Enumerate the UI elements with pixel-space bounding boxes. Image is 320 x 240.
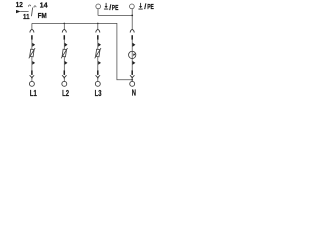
plug blade bbox=[64, 35, 66, 40]
wire bbox=[63, 57, 65, 71]
actuator arrow bbox=[16, 10, 21, 13]
protection path L1 bbox=[29, 23, 37, 98]
wire bbox=[63, 40, 65, 50]
junction PE bus / N column bbox=[131, 15, 133, 17]
svg-text:11: 11 bbox=[23, 12, 30, 21]
fixed contact 14 bbox=[34, 6, 36, 8]
svg-text:12: 12 bbox=[16, 0, 23, 9]
wire bbox=[131, 40, 133, 71]
junction L2 / bus bbox=[64, 23, 66, 25]
bottom terminal circle bbox=[130, 81, 135, 86]
protection path L3 bbox=[95, 23, 102, 98]
varistor bbox=[62, 49, 66, 57]
socket fork lower bbox=[62, 75, 64, 78]
PE bus wire bbox=[98, 14, 132, 16]
disconnect contact (lower) bbox=[133, 61, 136, 65]
protection path L2 bbox=[61, 23, 69, 98]
remote signalling contact FM (changeover) bbox=[16, 0, 49, 21]
svg-text:PE: PE bbox=[147, 2, 154, 11]
junction bus / N node bbox=[131, 79, 133, 81]
riser wire bbox=[31, 23, 33, 29]
L bus wire (tops of varistor paths to N) bbox=[32, 23, 132, 79]
wire PE2 / N column top bbox=[131, 9, 133, 30]
socket fork top bbox=[130, 29, 132, 32]
socket fork lower bbox=[96, 75, 98, 78]
plug blade bbox=[97, 35, 99, 40]
disconnect contact (upper) bbox=[32, 43, 35, 47]
disconnect contact (lower) bbox=[98, 61, 101, 65]
wire PE1 down bbox=[97, 9, 99, 16]
plug socket fork top bbox=[96, 29, 98, 32]
disconnect contact (lower) bbox=[32, 61, 35, 65]
plug blade lower bbox=[131, 70, 133, 75]
socket fork lower bbox=[30, 75, 32, 78]
junction L3 / bus bbox=[97, 23, 99, 25]
svg-text:14: 14 bbox=[40, 0, 49, 9]
protection path N (spark gap) bbox=[129, 29, 137, 97]
wire to terminal bbox=[63, 78, 65, 81]
wire to terminal bbox=[131, 78, 133, 81]
PE terminal 2 bbox=[130, 4, 135, 9]
plug socket fork top bbox=[30, 29, 32, 32]
wire to terminal bbox=[97, 78, 99, 81]
spark gap bbox=[129, 51, 136, 58]
bottom terminal circle bbox=[29, 81, 34, 86]
plug blade lower bbox=[31, 70, 33, 75]
contact lever (common 11) bbox=[32, 8, 33, 17]
svg-text:FM: FM bbox=[38, 11, 47, 20]
earth symbol 2 bbox=[138, 2, 153, 11]
svg-text:L1: L1 bbox=[30, 89, 37, 98]
wire bbox=[97, 40, 99, 50]
bottom terminal circle bbox=[62, 81, 67, 86]
svg-text:PE: PE bbox=[112, 3, 119, 12]
plug blade lower bbox=[97, 70, 99, 75]
wire bbox=[31, 40, 33, 50]
disconnect contact (lower) bbox=[65, 61, 68, 65]
disconnect contact (upper) bbox=[133, 43, 136, 47]
svg-text:N: N bbox=[132, 89, 136, 98]
wire to terminal bbox=[31, 78, 33, 81]
riser wire bbox=[97, 23, 99, 29]
plug blade bbox=[131, 35, 133, 40]
plug blade lower bbox=[64, 70, 66, 75]
varistor bbox=[96, 49, 100, 57]
riser wire bbox=[63, 23, 65, 29]
disconnect contact (upper) bbox=[65, 43, 68, 47]
svg-text:/: / bbox=[144, 2, 146, 11]
earth symbol 1 bbox=[104, 3, 119, 12]
wire bbox=[31, 57, 33, 71]
socket fork lower bbox=[130, 75, 132, 78]
disconnect contact (upper) bbox=[98, 43, 101, 47]
PE terminal 1 bbox=[96, 4, 101, 15]
svg-text:L2: L2 bbox=[62, 89, 69, 98]
bottom terminal circle bbox=[95, 81, 100, 86]
wire bbox=[97, 57, 99, 71]
fixed contact 12 bbox=[29, 5, 31, 7]
plug socket fork top bbox=[62, 29, 64, 32]
plug blade bbox=[31, 35, 33, 40]
varistor bbox=[30, 49, 34, 57]
svg-text:L3: L3 bbox=[95, 89, 102, 98]
